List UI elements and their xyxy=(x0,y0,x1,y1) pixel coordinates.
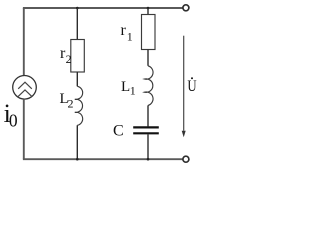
current source chevron upper xyxy=(18,82,32,89)
junction top right xyxy=(147,7,150,10)
wire right branch lower xyxy=(147,134,149,159)
svg-text:2: 2 xyxy=(68,97,74,111)
current source I0 circle xyxy=(13,76,37,100)
wire bottom rail xyxy=(23,158,183,160)
label U dot xyxy=(191,77,193,79)
wire top rail xyxy=(23,7,183,9)
wire right branch mid1 xyxy=(147,50,149,66)
svg-text:C: C xyxy=(113,122,124,139)
resistor r1 xyxy=(142,15,156,50)
svg-text:r: r xyxy=(121,22,127,39)
junction bottom middle xyxy=(76,158,79,161)
voltage arrow U xyxy=(183,36,185,131)
capacitor C plate bottom xyxy=(133,132,159,134)
junction top middle xyxy=(76,7,79,10)
junction bottom right xyxy=(147,158,150,161)
wire left xyxy=(23,8,25,76)
svg-text:0: 0 xyxy=(9,110,18,130)
wire middle branch upper xyxy=(76,8,78,40)
capacitor C plate top xyxy=(133,126,159,128)
svg-text:U: U xyxy=(187,78,197,96)
svg-text:1: 1 xyxy=(127,30,133,44)
wire middle branch lower xyxy=(76,125,78,159)
wire right branch stub xyxy=(147,8,149,15)
inductor L1 xyxy=(144,66,153,106)
svg-text:L: L xyxy=(121,79,130,95)
resistor r2 xyxy=(71,40,85,73)
svg-text:1: 1 xyxy=(130,83,136,97)
terminal bottom-right xyxy=(183,156,189,162)
wire left lower xyxy=(23,99,25,159)
svg-text:2: 2 xyxy=(66,52,72,66)
wire right branch mid2 xyxy=(147,105,149,126)
terminal top-right xyxy=(183,5,189,11)
wire middle branch mid xyxy=(76,72,78,86)
inductor L2 xyxy=(75,86,83,125)
current source chevron lower xyxy=(18,90,32,97)
